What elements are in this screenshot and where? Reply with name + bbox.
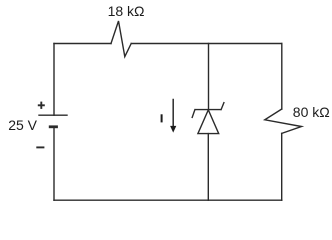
resistor R1 18 kOhm (series) (111, 21, 131, 57)
battery minus sign (36, 146, 44, 148)
svg-text:18 kΩ: 18 kΩ (108, 3, 145, 19)
current arrow I (downward) (170, 100, 176, 133)
zener diode D1 cathode left bend (192, 110, 195, 118)
wire top rail right segment (131, 43, 282, 45)
svg-text:25 V: 25 V (8, 117, 37, 133)
zener diode D1 anode triangle (198, 110, 219, 134)
wire middle branch lower (207, 134, 209, 201)
wire left branch lower (53, 127, 55, 200)
zener diode D1 cathode bar (195, 109, 221, 111)
wire right branch upper (281, 44, 283, 110)
wire right branch lower (281, 133, 283, 200)
svg-text:80 kΩ: 80 kΩ (293, 104, 330, 120)
label I current (161, 114, 163, 122)
wire middle branch upper (208, 44, 210, 110)
resistor R2 80 kOhm (load) (265, 109, 302, 133)
wire left branch upper (53, 44, 55, 116)
battery V1 negative plate (49, 125, 58, 128)
zener diode D1 cathode right bend (221, 103, 224, 110)
wire top rail left segment (54, 43, 111, 45)
wire bottom rail (54, 199, 282, 201)
battery V1 25 V positive plate (38, 114, 67, 116)
battery plus sign (38, 102, 45, 109)
